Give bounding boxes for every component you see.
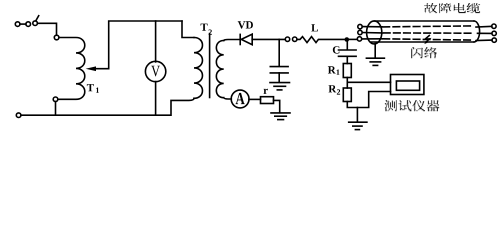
wire: cable sheath to ground G4 xyxy=(374,44,376,58)
transformer T2 primary winding xyxy=(194,38,202,99)
ground G1 xyxy=(270,82,290,84)
label 故障电缆 (faulty cable) xyxy=(424,3,480,13)
connector circle (right) xyxy=(293,37,297,41)
node: T1 bottom terminal xyxy=(53,97,58,102)
ground G2 xyxy=(271,112,290,114)
resistor R2 body xyxy=(343,88,351,102)
instrument display window xyxy=(396,81,419,90)
switch S1 blade (open) xyxy=(36,16,39,21)
wire: wiper to top rail xyxy=(95,21,182,69)
label 闪络 (flashover) xyxy=(411,47,437,58)
label T1 xyxy=(87,84,94,91)
transformer T2 secondary winding xyxy=(216,41,223,98)
wire: C to R1 xyxy=(346,56,348,63)
label R2 xyxy=(328,85,336,92)
ammeter A1 circle xyxy=(231,90,249,108)
wire: ammeter to resistor r xyxy=(249,98,261,100)
label V (voltmeter) xyxy=(151,66,160,77)
test instrument box U1 xyxy=(391,75,424,95)
faulty cable body top xyxy=(374,20,474,22)
cable left terminal circles xyxy=(358,24,362,28)
label T2 xyxy=(201,24,208,31)
capacitor C plates xyxy=(339,49,357,51)
switch terminal circle S1 xyxy=(15,22,20,27)
wire: to ground G3 xyxy=(356,108,358,122)
resistor R1 body xyxy=(343,64,351,78)
wire: capacitor to ground G1 xyxy=(278,73,280,82)
wire: instrument low side to R2 bottom xyxy=(347,92,390,108)
cable right stub wires xyxy=(476,25,492,28)
wire: T2 secondary bottom to ammeter xyxy=(224,98,232,99)
wire: diode to connector xyxy=(252,38,285,40)
label VD xyxy=(238,21,246,28)
T1 wiper arrow (tap) xyxy=(86,66,96,71)
label L xyxy=(311,24,318,31)
transformer T1 winding (autotransformer) xyxy=(58,38,85,100)
switch hinge circle S3 xyxy=(33,21,38,26)
ground G4 (cable sheath) xyxy=(366,57,384,59)
label R1 xyxy=(328,66,336,73)
cable right end cap xyxy=(474,21,480,42)
wire: switch to T1 top terminal xyxy=(37,23,56,35)
faulty cable body bottom xyxy=(371,41,474,43)
label 测试仪器 (test instrument) xyxy=(385,100,440,111)
faulty cable left end xyxy=(367,21,382,44)
wire: R1/R2 junction to instrument xyxy=(347,81,390,83)
transformer T2 core xyxy=(209,34,211,98)
switch terminal circle S2 xyxy=(26,22,31,27)
wire: junction to cable core terminal xyxy=(347,38,358,40)
node: bottom-left terminal xyxy=(16,113,21,118)
wire: T2 secondary top to diode xyxy=(224,40,240,41)
resistor r body xyxy=(261,97,274,104)
label A (ammeter) xyxy=(236,93,245,104)
wire: bottom rail to T2 primary bottom xyxy=(21,98,194,115)
wire: R1 to R2 xyxy=(346,78,348,89)
label C xyxy=(333,46,340,53)
cable conductors (dashed) xyxy=(383,26,473,27)
cable left stub wires xyxy=(362,26,382,28)
voltmeter V1 circle xyxy=(145,61,165,81)
node: T1 top terminal xyxy=(54,35,59,40)
wire: switch link S1-S2 xyxy=(20,23,26,25)
inductor L (zigzag) xyxy=(297,37,346,43)
wire: voltmeter branch top xyxy=(155,21,157,62)
wire: branch down to filter capacitor xyxy=(278,39,280,65)
junction node xyxy=(345,37,350,42)
wire: top rail corner into T2 primary xyxy=(182,21,194,38)
wire: voltmeter branch bottom xyxy=(155,82,157,116)
flashover arrow symbol xyxy=(425,36,430,43)
wire: junction down to capacitor C xyxy=(346,39,348,49)
cable right terminal circles xyxy=(492,24,496,28)
diode VD cathode bar xyxy=(239,34,241,44)
label r xyxy=(263,89,267,94)
filter capacitor plates xyxy=(270,66,288,68)
connector circle (left) xyxy=(285,37,289,41)
ground G3 xyxy=(349,121,367,123)
wire: resistor r to ground G2 xyxy=(274,100,280,112)
diode VD triangle xyxy=(241,34,252,45)
wire: T1 bottom terminal to bottom rail xyxy=(55,102,57,116)
